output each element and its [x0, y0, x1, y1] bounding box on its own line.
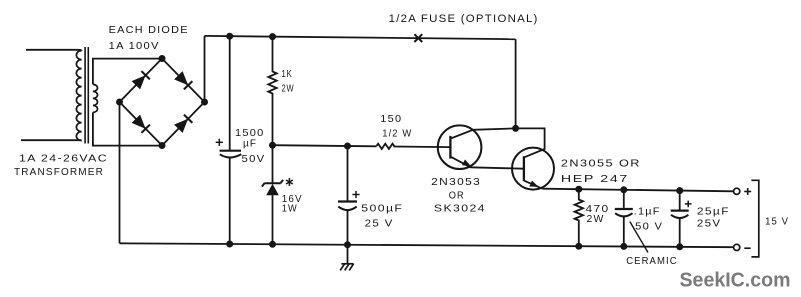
resistor R1 1K 2W	[268, 37, 276, 146]
wire secondary top lead	[93, 59, 162, 85]
transformer T1 core	[85, 47, 88, 144]
node zener bottom on bus	[269, 241, 276, 248]
wire negative bottom bus	[120, 243, 734, 247]
label output voltage 15 V	[765, 216, 789, 228]
svg-text:HEP 247: HEP 247	[561, 173, 629, 185]
label fuse F1	[389, 13, 539, 25]
svg-text:2N3055 OR: 2N3055 OR	[561, 158, 641, 170]
label Q1	[431, 176, 486, 215]
node R3 bottom	[575, 243, 582, 250]
node C3 top	[620, 186, 627, 193]
label transformer T1 value	[14, 153, 108, 179]
svg-text:1/2A FUSE (OPTIONAL): 1/2A FUSE (OPTIONAL)	[389, 13, 539, 25]
watermark SeekIC.com	[680, 269, 791, 292]
transistor Q1 2N3053 body	[438, 125, 482, 169]
svg-text:1/2 W: 1/2 W	[382, 127, 412, 139]
node bridge top vertex	[159, 55, 166, 62]
svg-text:1A 24-26VAC: 1A 24-26VAC	[19, 153, 108, 165]
label terminal minus	[744, 247, 750, 249]
wire secondary bottom lead	[93, 112, 162, 145]
transistor Q1 base bar	[449, 136, 451, 159]
svg-text:50 V: 50 V	[635, 221, 663, 233]
capacitor C1 1500uF 50V	[216, 36, 242, 244]
capacitor C3 0.1uF 50V ceramic	[615, 190, 633, 247]
node R3 top	[575, 186, 582, 193]
node C4 top	[676, 187, 683, 194]
transistor Q2 base bar	[523, 156, 525, 181]
transformer T1 secondary winding	[93, 84, 98, 112]
node C4 bottom	[676, 243, 683, 250]
callout line to CERAMIC label	[630, 222, 648, 253]
ground (chassis)	[340, 245, 353, 271]
svg-text:1W: 1W	[282, 203, 298, 215]
wire primary bottom lead	[21, 139, 82, 141]
label C2 value	[361, 203, 403, 230]
label R3 value	[586, 203, 610, 225]
terminal output positive	[734, 188, 740, 194]
node C2 bottom / ground junction	[344, 241, 351, 248]
wire Q1 collector to node B	[450, 128, 515, 138]
svg-text:SK3024: SK3024	[434, 203, 486, 215]
label zener rating	[282, 178, 303, 215]
node C3 bottom	[620, 243, 627, 250]
node C1 bottom	[226, 241, 233, 248]
wire output positive rail	[543, 189, 734, 192]
svg-text:25µF: 25µF	[697, 206, 730, 218]
node R1 top on bus	[269, 33, 276, 40]
wire Q2 emitter to output rail	[524, 181, 543, 189]
node A (zener / R1 / filter junction)	[269, 142, 276, 149]
node bridge left vertex	[116, 99, 123, 106]
svg-text:OR: OR	[449, 190, 465, 202]
diode D1 (bridge, left vertex to top vertex)	[120, 59, 163, 103]
svg-text:TRANSFORMER: TRANSFORMER	[14, 166, 104, 178]
wire top bus right corner down to node B	[515, 39, 517, 128]
node bridge bottom vertex	[159, 142, 166, 149]
capacitor C4 25uF 25V	[671, 191, 692, 247]
svg-text:15 V: 15 V	[765, 216, 789, 228]
label C1 value	[235, 127, 266, 165]
svg-text:SeekIC.com: SeekIC.com	[680, 269, 791, 292]
transformer T1 primary winding	[76, 51, 81, 141]
node C1 top	[226, 33, 233, 40]
fuse F1 1/2A (X mark)	[414, 34, 422, 42]
label C4 value	[697, 206, 730, 230]
svg-text:CERAMIC: CERAMIC	[626, 255, 678, 267]
diode D4 (bridge, bottom vertex to right vertex)	[162, 102, 205, 146]
transistor Q2 2N3055 body	[512, 148, 554, 190]
label terminal plus	[744, 188, 751, 195]
bracket output span	[751, 180, 758, 257]
label CERAMIC	[626, 255, 678, 267]
wire positive top bus	[205, 36, 516, 39]
label C3 value	[634, 206, 664, 233]
wire node A to R2	[273, 145, 377, 146]
node bridge right vertex	[201, 99, 208, 106]
svg-text:150: 150	[380, 113, 402, 125]
node C2 top	[344, 143, 351, 150]
wire bridge left vertex down to negative bus	[119, 102, 121, 243]
svg-text:µF: µF	[243, 138, 257, 150]
svg-text:2W: 2W	[282, 83, 295, 95]
resistor R3 470 2W	[575, 189, 583, 246]
capacitor C2 500uF 25V	[338, 146, 360, 245]
wire Q1 emitter to Q2 base	[450, 157, 524, 169]
label bridge diodes	[109, 24, 189, 52]
label R2 value	[380, 113, 412, 139]
svg-text:1A 100V: 1A 100V	[109, 40, 160, 52]
diode D2 (bridge, top vertex to right vertex)	[162, 59, 205, 103]
svg-text:2N3053: 2N3053	[431, 176, 481, 188]
resistor R2 150 1/2W	[376, 144, 394, 149]
node B (collectors junction)	[512, 125, 519, 132]
terminal output negative	[734, 244, 740, 250]
label Q2	[561, 158, 641, 186]
svg-text:.1µF: .1µF	[634, 206, 661, 218]
svg-text:25V: 25V	[697, 217, 722, 229]
svg-text:50V: 50V	[242, 153, 266, 165]
wire primary top lead	[26, 49, 82, 52]
label R1 value	[282, 68, 295, 95]
zener diode D5 16V 1W	[262, 145, 283, 244]
svg-text:2W: 2W	[587, 213, 605, 225]
wire R2 to Q1 base	[393, 146, 450, 149]
svg-text:25 V: 25 V	[365, 218, 394, 230]
svg-text:EACH DIODE: EACH DIODE	[109, 24, 189, 36]
diode D3 (bridge, left vertex to bottom vertex)	[120, 102, 163, 146]
wire bridge right vertex up to positive bus	[204, 36, 206, 102]
svg-text:1K: 1K	[282, 68, 293, 80]
wire node B to Q2 collector	[516, 128, 545, 157]
svg-text:500µF: 500µF	[361, 203, 403, 215]
